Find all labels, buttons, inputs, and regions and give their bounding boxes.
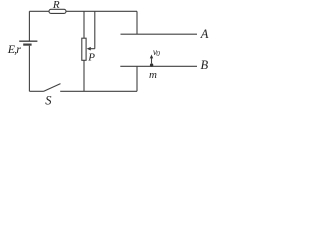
svg-text:E,r: E,r (7, 42, 22, 56)
wire potentiometer top lead (83, 11, 85, 38)
v0 arrowhead (150, 55, 153, 59)
svg-text:B: B (201, 58, 209, 72)
wiper arrowhead (87, 47, 91, 51)
wiper arrow shaft (91, 48, 95, 50)
battery E,r long plate (19, 40, 37, 42)
svg-text:m: m (149, 69, 157, 81)
potentiometer P body (82, 38, 86, 60)
wire bottom middle (60, 90, 137, 92)
wire top middle (66, 10, 137, 12)
wire bottom left (29, 90, 43, 92)
wire wiper vertical (94, 11, 96, 48)
switch S blade (44, 84, 61, 92)
svg-text:R: R (52, 0, 60, 11)
plate A (121, 33, 198, 35)
particle m dot (150, 63, 153, 66)
wire plate B riser (136, 66, 138, 91)
svg-text:A: A (200, 27, 209, 41)
wire right vertical to plate A (136, 11, 138, 34)
svg-text:P: P (87, 51, 95, 63)
svg-text:S: S (45, 94, 52, 106)
plate B (120, 65, 197, 67)
battery E,r short thick plate (23, 43, 31, 45)
resistor R (49, 9, 66, 13)
wire potentiometer bottom lead (83, 60, 85, 91)
svg-text:v0: v0 (153, 48, 160, 58)
wire left vertical upper (28, 11, 30, 40)
wire top-left horizontal (29, 10, 49, 12)
wire left vertical lower (28, 46, 30, 92)
v0 arrow shaft (151, 58, 153, 63)
